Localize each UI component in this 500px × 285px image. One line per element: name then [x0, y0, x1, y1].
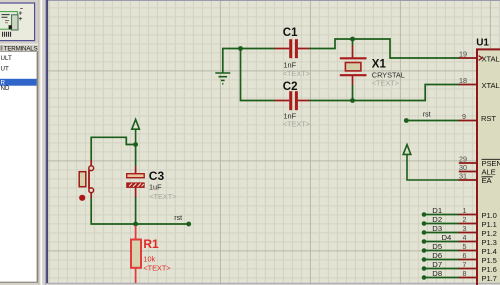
editor window left border: [45, 0, 48, 285]
wire C1 to XTAL1 pin: [309, 39, 459, 58]
svg-text:D5: D5: [432, 242, 442, 251]
svg-text:X1: X1: [372, 58, 387, 70]
pin 31 stub EA: [459, 179, 477, 181]
terminal dot D5: [422, 248, 427, 253]
list item POWER selected: [0, 79, 37, 87]
svg-text:UT: UT: [1, 65, 9, 72]
wire rst to RST pin: [406, 120, 459, 122]
node crystal bottom: [350, 98, 355, 103]
wire C3 bottom to junction: [135, 197, 137, 224]
chip U1 body fill: [478, 49, 500, 285]
svg-text:C3: C3: [149, 169, 165, 183]
svg-text:rst: rst: [174, 215, 182, 222]
svg-text:P1.0: P1.0: [482, 211, 497, 220]
svg-text:P1.1: P1.1: [482, 220, 497, 229]
pin 3 stub: [459, 232, 477, 234]
svg-text:<TEXT>: <TEXT>: [143, 263, 170, 272]
svg-text:R1: R1: [143, 237, 159, 251]
pin 7 stub: [459, 268, 477, 270]
svg-text:C1: C1: [283, 27, 298, 39]
svg-text:P1.4: P1.4: [482, 247, 497, 256]
terminal dot rst left: [186, 222, 191, 227]
crystal X1: [340, 45, 367, 85]
pin 2 stub: [459, 223, 477, 225]
pin 6 stub: [459, 259, 477, 261]
capacitor C3: [127, 166, 145, 197]
svg-text:10k: 10k: [143, 255, 155, 264]
terminal dot D6: [422, 257, 427, 262]
svg-text:<TEXT>: <TEXT>: [283, 69, 310, 78]
terminal dot D1: [422, 212, 427, 217]
window top edge: [45, 0, 500, 1]
wire D3: [424, 232, 459, 234]
svg-text:P1.2: P1.2: [482, 229, 497, 238]
resistor R1: [131, 226, 141, 285]
wire D8: [424, 277, 459, 279]
wire D4: [424, 241, 459, 243]
svg-text:PSEN: PSEN: [482, 159, 500, 168]
svg-text:D2: D2: [432, 215, 442, 224]
button (push switch): [79, 160, 94, 201]
wire D2: [424, 223, 459, 225]
svg-text:D6: D6: [432, 251, 442, 260]
svg-text:1uF: 1uF: [149, 182, 162, 191]
chip U1 border: [477, 49, 500, 285]
svg-text:3: 3: [463, 224, 467, 233]
node crystal top: [350, 37, 355, 42]
svg-text:U1: U1: [476, 38, 489, 49]
terminal dot D7: [422, 266, 427, 271]
wire ground to C1: [223, 49, 275, 73]
svg-text:D3: D3: [432, 224, 442, 233]
svg-text:P1.7: P1.7: [482, 274, 497, 283]
svg-text:1: 1: [463, 206, 467, 215]
svg-text:XTAL2: XTAL2: [482, 81, 500, 90]
chip border bottom segment: [476, 283, 478, 285]
svg-text:8: 8: [463, 269, 467, 278]
svg-text:<TEXT>: <TEXT>: [149, 192, 176, 201]
pin 18 stub: [459, 84, 477, 86]
pin 8 stub: [459, 277, 477, 279]
svg-text:<TEXT>: <TEXT>: [283, 120, 310, 129]
svg-text:TERMINALS: TERMINALS: [4, 45, 38, 52]
svg-text:7: 7: [463, 260, 467, 269]
TERMINALS header: [0, 44, 38, 53]
svg-text:D7: D7: [432, 260, 442, 269]
left panel background: [0, 0, 38, 285]
svg-text:19: 19: [459, 50, 467, 59]
panel gutter: [38, 0, 45, 285]
wire D1: [424, 214, 459, 216]
overview window: [0, 3, 35, 41]
capacitor C2: [275, 91, 310, 110]
pin 19 arrow: [479, 56, 483, 61]
svg-text:XTAL1: XTAL1: [482, 54, 500, 63]
terminals list box: [0, 52, 38, 283]
svg-text:4: 4: [463, 233, 467, 242]
svg-text:P1.5: P1.5: [482, 256, 497, 265]
svg-text:ND: ND: [1, 85, 10, 92]
wire power node to C3: [135, 145, 137, 167]
bottom window edge: [38, 283, 500, 284]
pin 5 stub: [459, 250, 477, 252]
wire D5: [424, 250, 459, 252]
pin PSEN name: [482, 159, 500, 168]
svg-text:D4: D4: [442, 233, 453, 242]
wire D6: [424, 259, 459, 261]
wire crystal bottom: [352, 85, 354, 101]
wire button top to power node: [91, 137, 135, 160]
svg-text:31: 31: [459, 172, 467, 181]
terminal dot D3: [422, 230, 427, 235]
svg-text:9: 9: [462, 112, 466, 121]
svg-text:5: 5: [463, 242, 467, 251]
svg-text:D1: D1: [432, 206, 442, 215]
terminal dot rst right: [404, 118, 409, 123]
wire D7: [424, 268, 459, 270]
wire crystal top stub: [352, 39, 354, 46]
pin 29 stub PSEN: [459, 162, 477, 164]
svg-text:P1.6: P1.6: [482, 265, 497, 274]
wire C2 to XTAL2 pin: [309, 85, 459, 101]
wire junction down to C2 row: [241, 49, 275, 101]
pin 4 stub: [459, 241, 477, 243]
power arrow VCC at reset: [132, 119, 140, 144]
pin EA name: [482, 176, 493, 185]
svg-text:6: 6: [463, 251, 467, 260]
ground: [215, 73, 230, 84]
junction node reset top: [133, 142, 138, 147]
capacitor C1: [275, 39, 310, 58]
svg-text:P1.3: P1.3: [482, 238, 497, 247]
svg-text:18: 18: [459, 76, 467, 85]
svg-text:ULT: ULT: [1, 55, 12, 62]
terminal dot D2: [422, 221, 427, 226]
svg-text:RST: RST: [481, 114, 496, 123]
svg-text:rst: rst: [423, 111, 431, 118]
pin 19 stub: [459, 57, 477, 59]
pin 9 stub: [459, 120, 477, 122]
power arrow VCC at EA: [403, 145, 459, 180]
svg-text:<TEXT>: <TEXT>: [372, 79, 399, 88]
pin 30 stub ALE: [459, 171, 477, 173]
svg-text:C2: C2: [283, 81, 298, 93]
junction node A: [238, 46, 243, 51]
svg-text:ALE: ALE: [482, 168, 496, 177]
junction node rst/R1: [133, 222, 138, 227]
svg-text:2: 2: [463, 215, 467, 224]
terminal dot D8: [422, 275, 427, 280]
terminal dot D4: [422, 239, 427, 244]
svg-text:EA: EA: [482, 176, 493, 185]
svg-text:D8: D8: [432, 269, 442, 278]
wire button bottom to rst row: [91, 198, 189, 224]
pin 1 stub: [459, 214, 477, 216]
